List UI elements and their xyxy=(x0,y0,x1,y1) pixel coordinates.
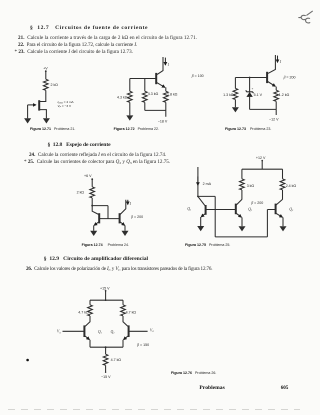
caption figura 12.76 xyxy=(171,372,216,376)
svg-text:β = 150: β = 150 xyxy=(136,343,149,347)
svg-text:+12 V: +12 V xyxy=(256,156,266,160)
ground (Q2) xyxy=(239,226,246,231)
svg-text:+6 V: +6 V xyxy=(84,174,92,178)
wire bottom rail xyxy=(250,109,277,115)
svg-text:I: I xyxy=(129,202,132,206)
current arrow I xyxy=(127,200,129,205)
wire Q1 emitter to ground xyxy=(200,217,202,226)
problem 23 text xyxy=(15,50,133,55)
node +V terminal dot xyxy=(45,70,47,72)
ground (source) xyxy=(43,118,50,123)
corner handwritten mark xyxy=(299,11,313,23)
svg-text:Q2: Q2 xyxy=(248,207,253,212)
svg-text:β = 200: β = 200 xyxy=(130,215,143,219)
wire Q2 base input xyxy=(129,330,148,332)
transistor Q1 collector lead xyxy=(198,196,205,205)
transistor Q1 base bar xyxy=(205,205,207,215)
node top jog dot xyxy=(197,196,199,198)
resistor 4.7 kOhm right xyxy=(121,305,126,316)
svg-text:I: I xyxy=(279,60,282,64)
transistor Q1 emitter lead with arrow xyxy=(201,214,205,217)
resistor 2.4 kOhm xyxy=(280,179,285,190)
problem 21 text xyxy=(18,36,197,41)
transistor Q2 emitter lead with arrow xyxy=(236,213,241,217)
caption figura 12.72 xyxy=(114,128,159,132)
svg-text:3 kΩ: 3 kΩ xyxy=(247,184,255,188)
wire rail to right resistor xyxy=(122,300,124,305)
wire left resistor to Q1 collector xyxy=(85,316,90,326)
svg-text:β = 100: β = 100 xyxy=(191,74,204,78)
ground (Q3) xyxy=(280,226,287,231)
svg-text:1.2 kΩ: 1.2 kΩ xyxy=(279,93,290,97)
wire resistor to rail xyxy=(275,101,277,109)
current arrow I xyxy=(277,56,279,63)
wire bottom rail xyxy=(215,236,267,238)
svg-text:+15 V: +15 V xyxy=(100,287,110,291)
ground (gate) xyxy=(24,118,31,123)
wire collector with bend xyxy=(157,57,163,75)
wire +6V to resistor xyxy=(91,179,93,187)
problem 22 text xyxy=(18,43,137,48)
wire base to middle resistor xyxy=(144,79,146,92)
svg-text:2 mA: 2 mA xyxy=(203,182,212,186)
wire to tail resistor xyxy=(105,347,107,354)
wire gate lead with arrow xyxy=(28,104,36,106)
transistor Q1 emitter lead with arrow xyxy=(85,336,89,340)
wire left resistor to ground xyxy=(234,100,236,108)
wire right resistor to Q2 collector xyxy=(123,316,128,326)
wire top rail xyxy=(90,299,123,301)
transistor Q2 collector lead xyxy=(236,199,242,205)
transistor Q1 collector lead xyxy=(92,206,98,215)
node zener junction dot xyxy=(249,77,251,79)
wire bridge vertical xyxy=(214,196,216,237)
wire Q3 base jog xyxy=(267,210,275,237)
emitter lead with arrow xyxy=(157,83,165,88)
wire bases Q1-Q2 xyxy=(206,209,236,211)
resistor 2 kOhm xyxy=(90,187,95,198)
transistor Q3 collector lead xyxy=(276,199,282,205)
wire base xyxy=(235,77,267,79)
svg-text:2 kΩ: 2 kΩ xyxy=(77,191,85,195)
ground (Q1) xyxy=(197,226,204,231)
svg-text:Vi1: Vi1 xyxy=(57,330,61,335)
page number 605 xyxy=(281,386,289,391)
svg-text:4.7 kΩ: 4.7 kΩ xyxy=(126,310,137,314)
wire rail to left resistor xyxy=(89,300,91,305)
svg-text:1.8 kΩ: 1.8 kΩ xyxy=(167,93,178,97)
wire base xyxy=(130,78,156,80)
transistor Q2 emitter lead with arrow xyxy=(124,336,128,340)
caption figura 12.73 xyxy=(225,128,271,132)
wire Q1 base input xyxy=(63,330,85,332)
node junction dot xyxy=(91,205,93,207)
svg-text:Q1: Q1 xyxy=(98,330,102,335)
transistor Q base bar xyxy=(155,73,157,84)
section header 12.7 xyxy=(30,26,148,32)
resistor 4.3 kOhm middle xyxy=(142,91,147,102)
wire +15V stub xyxy=(105,291,107,300)
svg-text:2 kΩ: 2 kΩ xyxy=(51,83,59,87)
resistor 4.7 kOhm tail xyxy=(103,354,108,365)
wire emitter to resistor xyxy=(275,87,277,91)
ink dot artifact xyxy=(26,359,29,362)
wire rail to left resistor xyxy=(241,169,243,179)
caption figura 12.75 xyxy=(185,244,230,248)
transistor Q2 base bar xyxy=(128,325,130,337)
node +15V terminal dot xyxy=(105,290,107,292)
resistor 1.8 kOhm emitter xyxy=(163,91,168,102)
svg-text:+: + xyxy=(252,87,254,91)
caption figura 12.71 xyxy=(30,128,75,132)
resistor 4.3 kOhm left xyxy=(127,91,132,102)
problem 25 text xyxy=(24,160,170,165)
wire source to ground xyxy=(40,110,47,119)
resistor 4.7 kOhm left xyxy=(88,305,93,316)
wire top jog xyxy=(198,195,215,197)
svg-text:I: I xyxy=(167,63,170,67)
wire Q3 emitter to ground xyxy=(282,217,284,226)
svg-text:Q1: Q1 xyxy=(187,207,191,212)
svg-text:Q2: Q2 xyxy=(111,330,116,335)
transistor Q1 emitter lead with arrow xyxy=(94,222,98,225)
transistor Q2 base bar xyxy=(119,213,121,223)
svg-text:Q3: Q3 xyxy=(289,207,294,212)
resistor 1.3 kOhm xyxy=(233,88,238,99)
node rail dot xyxy=(105,299,107,301)
wire Q2 emitter to ground xyxy=(241,217,243,226)
svg-text:β = 200: β = 200 xyxy=(283,75,296,79)
wire 2mA feed xyxy=(197,167,199,196)
wire Q2 emitter down xyxy=(122,340,124,347)
svg-text:4.3 kΩ: 4.3 kΩ xyxy=(148,92,159,96)
ground (Q2) xyxy=(122,231,129,236)
svg-text:−15 V: −15 V xyxy=(101,375,111,379)
section header 12.8 xyxy=(48,143,111,149)
svg-text:5.1 V: 5.1 V xyxy=(254,93,263,97)
wire left resistor to ground xyxy=(129,102,131,115)
emitter lead with arrow xyxy=(268,82,276,87)
svg-text:−18 V: −18 V xyxy=(158,120,168,124)
wire collector-base bridge xyxy=(92,206,108,219)
caption figura 12.74 xyxy=(82,244,129,248)
svg-text:4.7 kΩ: 4.7 kΩ xyxy=(78,310,89,314)
svg-text:+V: +V xyxy=(43,67,48,71)
node +12V stub dot xyxy=(261,160,263,162)
wire Q2 emitter to ground xyxy=(124,225,126,230)
resistor 1.2 kOhm xyxy=(274,90,279,101)
running footer Problemas xyxy=(199,386,224,392)
svg-text:4.7 kΩ: 4.7 kΩ xyxy=(111,358,122,362)
transistor Q2 collector lead xyxy=(120,200,126,215)
ground (left) xyxy=(126,115,133,120)
resistor 3 kOhm xyxy=(240,179,245,190)
current arrow 2 mA xyxy=(197,177,199,186)
transistor Q2 emitter lead with arrow xyxy=(120,222,124,225)
wire +V to resistor xyxy=(45,71,47,79)
wire top rail xyxy=(242,168,283,170)
transistor Q1 JFET channel bar xyxy=(38,100,40,110)
wire gate down xyxy=(27,105,29,118)
wire base to left resistor xyxy=(129,79,131,92)
problem 26 text xyxy=(26,267,212,272)
wire middle resistor to rail xyxy=(144,102,146,110)
resistor 2 kOhm xyxy=(43,79,48,90)
wire +12V stub xyxy=(261,161,263,170)
wire bases xyxy=(99,218,119,220)
transistor Q2 base bar xyxy=(235,204,237,215)
wire to zener xyxy=(249,78,251,92)
transistor Q1 base bar xyxy=(83,325,85,337)
wire zener to rail xyxy=(249,97,251,110)
current arrow I xyxy=(164,58,166,65)
wire Q1 emitter to ground xyxy=(93,225,95,230)
wire resistor to node xyxy=(91,198,93,206)
svg-text:4.3 kΩ: 4.3 kΩ xyxy=(117,96,128,100)
wire right resistor down xyxy=(282,190,284,200)
ground (Q1) xyxy=(90,231,97,236)
bottom scan artifact dashed line xyxy=(8,409,300,411)
svg-text:−12 V: −12 V xyxy=(269,118,279,122)
node -15V terminal dot xyxy=(105,372,106,373)
node +6V terminal dot xyxy=(91,178,93,180)
svg-text:1.3 kΩ: 1.3 kΩ xyxy=(223,93,234,97)
ground (left) xyxy=(232,107,239,112)
svg-text:2.4 kΩ: 2.4 kΩ xyxy=(286,184,297,188)
transistor Q3 emitter lead with arrow xyxy=(276,213,282,217)
transistor Q1 base bar xyxy=(98,213,100,223)
wire collector with bend xyxy=(268,55,275,73)
problem 24 text xyxy=(29,153,166,158)
wire tail resistor to -15V xyxy=(105,365,107,372)
wire rail to right resistor xyxy=(282,169,284,179)
zener diode D1 5.1V xyxy=(246,90,254,93)
transistor Q3 base bar xyxy=(275,204,277,215)
wire bottom rail xyxy=(90,346,123,348)
svg-text:Vi2: Vi2 xyxy=(150,328,155,333)
wire emitter to resistor xyxy=(165,87,167,91)
wire left resistor down xyxy=(241,190,243,200)
node emitter rail dot xyxy=(105,346,107,348)
wire base to left resistor xyxy=(234,78,236,89)
section header 12.9 xyxy=(44,257,148,263)
svg-text:β = 200: β = 200 xyxy=(250,201,263,205)
transistor Q base bar xyxy=(266,72,268,83)
wire resistor to drain xyxy=(40,90,46,101)
wire bottom rail xyxy=(145,102,166,116)
wire Q1 emitter down xyxy=(89,340,91,347)
